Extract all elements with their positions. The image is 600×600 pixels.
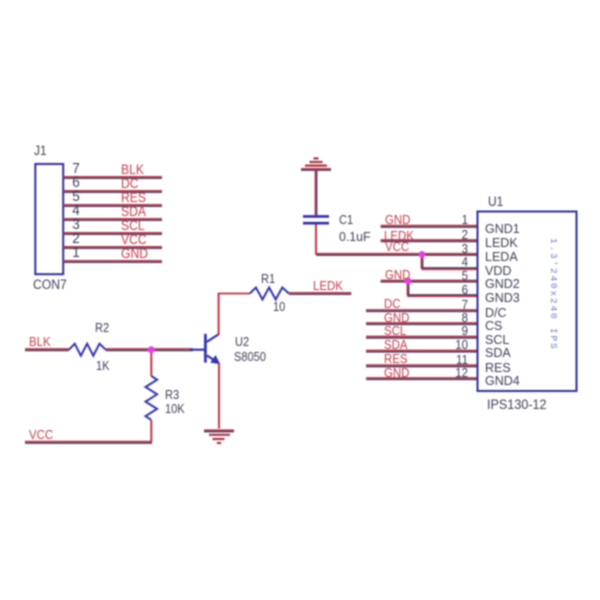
label C1 bbox=[339, 213, 353, 226]
value 10K (R3) bbox=[165, 402, 185, 415]
wire U1 pin8 GND bbox=[366, 323, 477, 325]
net label GND (U1 pin12) bbox=[384, 366, 409, 379]
label CON7 bbox=[33, 278, 67, 291]
wire jog pin3 to pin4 VDD bbox=[421, 254, 477, 269]
wire U1 pin2 LEDK bbox=[381, 240, 477, 242]
wire J1 pin3 SCL bbox=[63, 233, 162, 235]
wire R1 row left bbox=[219, 293, 250, 295]
label R3 bbox=[165, 388, 179, 401]
wire U1 pin1 GND bbox=[381, 226, 477, 228]
wire J1 pin2 VCC bbox=[63, 247, 162, 249]
label IPS130-12 bbox=[487, 398, 547, 411]
wire BLK to R2 bbox=[25, 349, 69, 351]
wire collector up to R1 row bbox=[218, 293, 220, 335]
wire J1 pin7 BLK bbox=[63, 177, 162, 179]
J1 pin number 4 bbox=[70, 204, 83, 218]
resistor R2 bbox=[69, 344, 106, 356]
label R1 bbox=[261, 272, 275, 285]
U1 pin number 5 bbox=[450, 270, 468, 282]
wire ground to C1 top bbox=[315, 170, 316, 215]
U1 pin name GND3 bbox=[485, 292, 520, 304]
U1 pin number 12 bbox=[450, 367, 468, 379]
junction node VCC (pin3) bbox=[419, 251, 426, 258]
wire VCC rail bbox=[25, 442, 152, 444]
junction node GND (pin5) bbox=[405, 278, 412, 285]
net label SCL (U1 pin9) bbox=[384, 324, 406, 337]
U1 pin number 6 bbox=[450, 284, 468, 296]
wire R1 to LEDK label bbox=[289, 293, 351, 295]
wire J1 pin4 SDA bbox=[63, 219, 162, 221]
wire U1 pin11 RES bbox=[366, 365, 477, 367]
wire J1 pin1 GND bbox=[63, 261, 162, 263]
junction node base/R3 bbox=[148, 346, 155, 353]
wire U1 pin9 SCL bbox=[366, 337, 477, 339]
wire R3 bottom to VCC rail bbox=[150, 420, 152, 442]
U1 pin number 1 bbox=[450, 214, 468, 226]
wire junction to R3 top bbox=[150, 350, 152, 376]
U1 pin name D/C bbox=[485, 307, 507, 319]
wire J1 pin5 RES bbox=[63, 205, 162, 207]
U1 pin name GND1 bbox=[485, 223, 520, 235]
net label BLK (J1) bbox=[121, 163, 144, 176]
wire C1 bottom drop bbox=[315, 225, 317, 255]
net label RES (U1 pin11) bbox=[384, 352, 408, 365]
net label LEDK (R1 right) bbox=[313, 279, 343, 292]
net label VCC (J1) bbox=[121, 233, 147, 246]
net label VCC (U1 pin3) bbox=[385, 240, 409, 253]
J1 pin number 7 bbox=[70, 162, 83, 176]
U1 pin number 3 bbox=[450, 243, 468, 255]
value 10 (R1) bbox=[273, 300, 285, 313]
J1 pin number 5 bbox=[70, 190, 83, 204]
net label GND (U1 pin1) bbox=[385, 213, 410, 226]
wire U1 pin5 GND bbox=[381, 280, 477, 282]
U1 pin name LEDK bbox=[485, 237, 518, 249]
J1 pin number 2 bbox=[70, 232, 83, 246]
net label VCC (left) bbox=[29, 428, 53, 441]
label U1 bbox=[488, 194, 503, 208]
net label DC (U1 pin7) bbox=[384, 297, 401, 310]
U1 pin name VDD bbox=[485, 265, 511, 277]
net label SDA (U1 pin10) bbox=[384, 338, 408, 351]
wire emitter down to ground bbox=[218, 363, 220, 429]
net label GND (U1 pin5) bbox=[385, 268, 410, 281]
U1 pin number 4 bbox=[450, 256, 468, 268]
IC U1 body bbox=[478, 212, 577, 392]
resistor R1 bbox=[250, 288, 289, 300]
U1 screen size note (vertical text) bbox=[548, 238, 558, 351]
wire jog pin5 to pin6 bbox=[407, 281, 477, 296]
net label BLK (left) bbox=[29, 335, 51, 348]
wire U1 pin12 GND bbox=[366, 378, 477, 380]
wire J1 pin6 DC bbox=[63, 191, 162, 193]
wire C1 to U1 pin3 (VCC net) bbox=[315, 254, 477, 256]
ground (earth) above C1 bbox=[301, 158, 331, 170]
connector J1 body bbox=[35, 164, 63, 274]
U1 pin name LEDA bbox=[485, 251, 518, 263]
U1 pin name SDA bbox=[485, 347, 511, 359]
J1 pin number 1 bbox=[70, 246, 83, 260]
U1 pin name GND2 bbox=[485, 278, 520, 290]
wire R2 to transistor base bbox=[106, 349, 193, 351]
value 1K (R2) bbox=[96, 359, 110, 372]
net label RES (J1) bbox=[121, 191, 146, 204]
U1 pin name GND4 bbox=[485, 375, 520, 387]
U1 pin name RES bbox=[485, 362, 511, 374]
label R2 bbox=[95, 321, 109, 334]
U1 pin name CS bbox=[485, 320, 502, 332]
U1 pin number 7 bbox=[450, 299, 468, 311]
net label SDA (J1) bbox=[121, 205, 146, 218]
net label DC (J1) bbox=[121, 177, 139, 190]
U1 pin number 8 bbox=[450, 312, 468, 324]
net label LEDK (U1 pin2) bbox=[384, 229, 414, 242]
label U2 bbox=[235, 335, 249, 348]
U1 pin number 10 bbox=[450, 339, 468, 351]
label J1 bbox=[34, 143, 47, 157]
U1 pin name SCL bbox=[485, 334, 509, 346]
U1 pin number 2 bbox=[450, 229, 468, 241]
value S8050 (U2) bbox=[234, 350, 266, 363]
net label GND (U1 pin8) bbox=[384, 311, 409, 324]
ground (emitter of U2) bbox=[204, 430, 234, 443]
J1 pin number 3 bbox=[70, 218, 83, 232]
net label SCL (J1) bbox=[121, 219, 145, 232]
resistor R3 bbox=[146, 376, 158, 420]
J1 pin number 6 bbox=[70, 176, 83, 190]
capacitor C1 plates bbox=[303, 216, 329, 223]
wire U1 pin7 DC bbox=[366, 310, 477, 312]
U1 pin number 9 bbox=[450, 325, 468, 337]
wire U1 pin10 SDA bbox=[366, 350, 477, 352]
transistor U2 (NPN S8050) bbox=[190, 334, 221, 364]
value 0.1uF bbox=[339, 230, 371, 243]
U1 pin number 11 bbox=[450, 354, 468, 366]
net label GND (J1) bbox=[121, 247, 148, 260]
